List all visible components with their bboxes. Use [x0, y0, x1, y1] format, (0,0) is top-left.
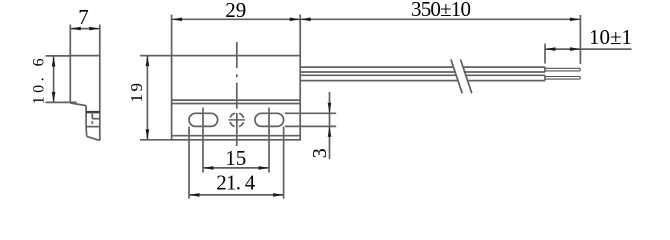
- body bottom inner line: [172, 135, 301, 137]
- dim 10.6 dimension line: [53, 56, 55, 102]
- wire 2 stripped tip: [545, 77, 580, 80]
- dim 29 arrow left: [172, 18, 183, 22]
- dim 3 arrow top outside: [328, 103, 332, 114]
- dim 7 extension line left: [69, 25, 71, 56]
- dim 29 extension line right: [299, 15, 301, 56]
- svg-text:15: 15: [225, 146, 246, 170]
- dim 350 dimension line: [300, 18, 580, 20]
- wire break line 2: [461, 59, 472, 93]
- svg-text:10±1: 10±1: [589, 25, 632, 49]
- wire 2 top line: [300, 74, 545, 76]
- body flange top upper line: [172, 99, 301, 101]
- dim 15 dimension line: [203, 167, 269, 169]
- slot left: [189, 113, 218, 126]
- dim 7 arrow right: [89, 27, 100, 31]
- dim 15 arrow left: [203, 166, 214, 170]
- side view hole center dash: [91, 121, 93, 124]
- dim 3 extension line top: [285, 112, 336, 114]
- dim 21.4 extension line left: [188, 127, 190, 199]
- dim 10+-1 dimension line: [545, 48, 632, 50]
- wire break gap: [452, 59, 472, 94]
- side view step vertical: [85, 106, 87, 127]
- dim 3 extension line bottom: [285, 125, 336, 127]
- center hole horizontal centerline: [229, 119, 245, 121]
- svg-text:29: 29: [225, 0, 246, 22]
- wire 2 end cap: [544, 75, 546, 80]
- side view bottom step diagonal: [70, 103, 86, 106]
- body vertical centerline: [236, 42, 238, 146]
- dim 21.4 arrow left: [189, 193, 200, 197]
- dim 10.6 arrow bottom: [52, 92, 56, 103]
- wire 1 bottom line: [300, 71, 545, 73]
- dim 15 extension line right: [268, 108, 270, 173]
- dim 29 extension line left: [171, 15, 173, 56]
- svg-text:10. 6: 10. 6: [30, 58, 47, 104]
- dim 19 extension line top: [140, 55, 172, 57]
- side view wedge bottom edge: [87, 136, 100, 140]
- dim 19 arrow top: [146, 56, 150, 67]
- dim 19 arrow bottom: [146, 129, 150, 140]
- dim 7 arrow left: [70, 27, 81, 31]
- dim 21.4 extension line right: [283, 127, 285, 199]
- dim 19 extension line bottom: [140, 139, 172, 141]
- dim 21.4 arrow right: [273, 193, 284, 197]
- dim 350 arrow right: [570, 18, 581, 22]
- dim 350 arrow left: [300, 18, 311, 22]
- dim 10+-1 extension line left: [544, 44, 546, 64]
- body flange top line: [172, 103, 301, 105]
- side view flange bottom line: [86, 126, 100, 128]
- svg-text:3: 3: [309, 148, 331, 158]
- slot right: [255, 113, 284, 126]
- dim 10+-1 arrow left: [545, 47, 556, 51]
- dim 29 arrow right: [290, 18, 301, 22]
- svg-text:21. 4: 21. 4: [216, 171, 255, 195]
- wire 1 end cap: [544, 67, 546, 72]
- side view hole inner vertical: [91, 112, 93, 119]
- side view thick flange line: [86, 111, 100, 113]
- dim 15 extension line left: [202, 108, 204, 173]
- dim 21.4 dimension line: [189, 194, 284, 196]
- dim 10+-1 arrow right: [570, 47, 581, 51]
- center hole dashed circle: [230, 113, 244, 127]
- dim 3 arrow bottom outside: [328, 126, 332, 136]
- svg-text:350±10: 350±10: [411, 0, 471, 21]
- wire 2 bottom line: [300, 80, 545, 82]
- dim 15 arrow right: [259, 166, 270, 170]
- side view wedge left edge: [85, 127, 88, 137]
- side view outline: [70, 56, 100, 141]
- wire 1 stripped tip: [545, 68, 580, 71]
- svg-text:19: 19: [127, 83, 146, 103]
- dim 29 dimension line: [172, 18, 301, 20]
- body outline: [172, 56, 301, 140]
- dim 19 dimension line: [146, 56, 148, 140]
- dim 10.6 arrow top: [52, 56, 56, 67]
- dim 10.6 extension line top: [46, 55, 71, 57]
- dim 7 extension line right: [99, 25, 101, 56]
- dim 350 extension line right: [579, 15, 581, 64]
- wire 1 top line: [300, 66, 545, 68]
- side view hole inner horizontal: [92, 118, 100, 120]
- dim 7 dimension line: [70, 28, 100, 30]
- wire break line 1: [451, 59, 462, 93]
- svg-text:7: 7: [78, 5, 89, 29]
- dim 10.6 extension line bottom: [46, 101, 77, 103]
- dim 3 dimension line: [329, 92, 331, 159]
